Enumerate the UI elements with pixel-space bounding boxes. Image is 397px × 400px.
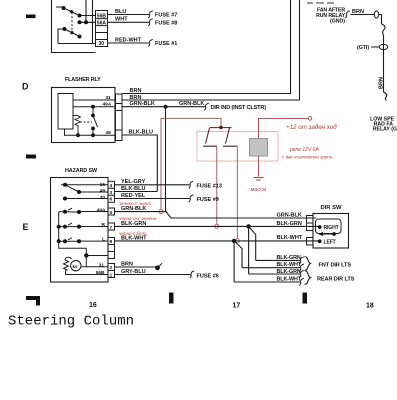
grid dash marker (row D/E boundary) xyxy=(26,155,36,159)
svg-text:RELAY (G: RELAY (G xyxy=(373,127,397,133)
lower squiggle + hook xyxy=(384,92,387,101)
svg-text:(GND): (GND) xyxy=(330,19,345,25)
svg-text:масса: масса xyxy=(251,187,268,193)
junction dot on BLK-WHT xyxy=(232,239,236,243)
svg-text:BLK-WHT: BLK-WHT xyxy=(277,235,303,241)
connector oval (horizontal) xyxy=(379,44,387,49)
red wire coil to +12 terminal xyxy=(259,118,309,138)
svg-text:FLASHER RLY: FLASHER RLY xyxy=(65,77,101,83)
connector pin numbers xyxy=(110,183,113,279)
svg-text:49: 49 xyxy=(100,188,106,194)
svg-text:BLK-GRN: BLK-GRN xyxy=(277,269,301,275)
svg-text:FUSE #7: FUSE #7 xyxy=(155,13,177,19)
svg-text:BLK-BLU: BLK-BLU xyxy=(121,186,145,192)
pink relay outline box xyxy=(197,132,278,162)
red relay switch contacts xyxy=(203,128,237,147)
contact dots of top switch xyxy=(62,6,89,39)
wire RED-WHT to fuse 1 xyxy=(108,42,150,44)
svg-text:BRN: BRN xyxy=(121,262,133,268)
svg-text:BLK-GRN: BLK-GRN xyxy=(121,221,146,227)
svg-text:HAZARD SW: HAZARD SW xyxy=(65,168,98,174)
branch BLK-WHT front xyxy=(234,241,242,268)
LEFT contact xyxy=(318,239,322,243)
left rail xyxy=(59,212,87,256)
wire GRN-BLK to dir sw xyxy=(115,212,317,218)
svg-text:FUSE #9: FUSE #9 xyxy=(197,197,219,203)
dir sw box xyxy=(313,214,349,249)
link line to oval xyxy=(371,46,379,48)
wire BLK-BLU flasher 49 to hazard 49 xyxy=(122,135,157,192)
red wire drop to BLK-WHT tap xyxy=(236,146,238,239)
svg-text:BLU: BLU xyxy=(115,9,126,15)
svg-text:реле 12V 6А: реле 12V 6А xyxy=(289,147,319,153)
relay coil gray square xyxy=(250,139,268,157)
branch BLK-GRN front xyxy=(249,226,256,260)
svg-text:4: 4 xyxy=(110,183,113,189)
RIGHT contact xyxy=(318,225,322,229)
svg-text:49A: 49A xyxy=(97,207,106,213)
svg-text:E: E xyxy=(23,222,29,232)
svg-text:DIR SW: DIR SW xyxy=(321,205,342,211)
main ground wire down xyxy=(383,35,385,92)
svg-text:6: 6 xyxy=(110,197,113,203)
svg-text:BLK-BLU: BLK-BLU xyxy=(129,130,153,136)
svg-text:RED-WHT: RED-WHT xyxy=(115,37,142,43)
svg-text:56B: 56B xyxy=(97,13,107,19)
dashed link coil to contact xyxy=(80,121,92,123)
dashed travel line of top switch xyxy=(71,12,73,34)
svg-text:BRN: BRN xyxy=(379,77,385,89)
pin 49 bottom wire xyxy=(65,129,116,135)
connector oval (vertical) xyxy=(374,11,378,18)
svg-text:BRN: BRN xyxy=(352,9,364,15)
front dir lts brace xyxy=(305,257,311,271)
svg-text:FUSE #6: FUSE #6 xyxy=(197,273,219,279)
wire BLK-BLU joining flasher 49 xyxy=(115,191,158,193)
svg-text:FUSE #8: FUSE #8 xyxy=(155,20,177,26)
svg-text:GRN-BLK: GRN-BLK xyxy=(121,206,146,212)
wire GRN-BLK pin 49A to DIR IND xyxy=(122,106,205,108)
red contact tap circle on BLK-GRN xyxy=(215,224,219,228)
svg-text:BRN: BRN xyxy=(130,88,142,94)
bottom-left corner mark xyxy=(26,296,40,306)
hazard contact dots xyxy=(57,183,89,258)
svg-text:ks: ks xyxy=(73,264,79,269)
wire RED-YEL to fuse 9 xyxy=(115,198,190,200)
red wire coil to ground xyxy=(258,156,260,177)
svg-text:GRN-BLK: GRN-BLK xyxy=(179,101,204,107)
svg-text:FUSE #1: FUSE #1 xyxy=(155,41,177,47)
svg-text:с две контактни групи: с две контактни групи xyxy=(282,155,333,160)
ground point dot xyxy=(155,265,160,270)
red tap circle on 49A wire xyxy=(159,210,163,214)
svg-text:BLK-GRN: BLK-GRN xyxy=(277,255,301,261)
switch arm upper (56B) xyxy=(56,7,96,16)
svg-text:BRN: BRN xyxy=(130,95,142,101)
rail to unlabeled pin xyxy=(86,256,108,267)
wire GRY-BLU to fuse 6 xyxy=(115,274,191,276)
svg-text:56B: 56B xyxy=(96,270,105,276)
svg-text:31: 31 xyxy=(106,95,112,101)
L switch arm xyxy=(59,240,108,242)
switch body inner edge xyxy=(92,0,94,44)
wire BLK-WHT front dir lts xyxy=(242,267,300,269)
wire BRN to ground wire xyxy=(351,15,382,25)
junction dot on GRN-BLK xyxy=(164,105,168,109)
flasher connector strip xyxy=(116,94,123,141)
svg-text:2: 2 xyxy=(110,265,113,271)
wire BRN (upper) to fan-after-run relay xyxy=(122,0,291,94)
svg-text:D: D xyxy=(22,82,29,92)
pin 49A wire xyxy=(73,106,115,108)
hazard switch box xyxy=(51,178,109,283)
svg-text:BLK-WHT: BLK-WHT xyxy=(277,277,302,283)
R switch arm xyxy=(59,226,108,228)
wire bottom rail to pin 30 xyxy=(58,29,96,44)
connector strip 56B/56A/30 xyxy=(96,11,108,47)
branch BLK-GRN rear xyxy=(248,226,250,274)
rear dir lts brace xyxy=(305,271,311,285)
svg-text:15: 15 xyxy=(100,182,106,188)
wire drop GRN-BLK to hazard 49A xyxy=(165,107,167,212)
svg-text:GRY-BLU: GRY-BLU xyxy=(121,269,146,275)
wire WHT to fuse 8 xyxy=(108,21,150,23)
flasher heater zigzag xyxy=(73,116,81,136)
grid dash marker (row C/D boundary) xyxy=(26,15,36,19)
flasher relay box xyxy=(52,88,116,143)
svg-text:GRN-BLK: GRN-BLK xyxy=(277,213,302,219)
wire BRN pin 31 xyxy=(122,0,300,100)
wire BLK-GRN rear dir lts xyxy=(249,273,300,275)
red ground symbol xyxy=(254,178,264,181)
svg-text:BLK-GRN: BLK-GRN xyxy=(277,221,302,227)
svg-text:(GTI): (GTI) xyxy=(357,45,369,51)
flasher contact chain xyxy=(93,107,98,136)
svg-text:BLK-WHT: BLK-WHT xyxy=(277,262,302,268)
svg-text:16: 16 xyxy=(89,302,97,309)
49A switch arm xyxy=(59,211,108,214)
svg-text:BLK-WHT: BLK-WHT xyxy=(121,235,147,241)
contact 15 with arm to 49 xyxy=(61,185,108,192)
wire BLK-WHT rear dir lts xyxy=(234,281,300,283)
switch arm arrows xyxy=(68,208,72,240)
svg-text:FUSE #13: FUSE #13 xyxy=(197,183,222,189)
wire BLK-GRN to dir sw RIGHT xyxy=(115,225,320,227)
svg-text:RIGHT: RIGHT xyxy=(324,225,339,231)
wire BLU to fuse 7 xyxy=(108,14,150,16)
contact 30 xyxy=(65,198,108,200)
red feed wire from GRN-BLK 49A xyxy=(161,118,221,209)
wire BRN to ground point xyxy=(115,266,158,268)
svg-text:30: 30 xyxy=(99,41,105,47)
wire BLK-WHT to dir sw LEFT xyxy=(115,240,320,242)
svg-text:черна със зелено: черна със зелено xyxy=(119,216,157,221)
svg-text:YEL-GRY: YEL-GRY xyxy=(121,179,146,185)
hazard indicator lamp xyxy=(71,261,81,271)
svg-text:31: 31 xyxy=(99,263,105,269)
hazard connector strip cells xyxy=(108,181,115,277)
svg-text:RED-YEL: RED-YEL xyxy=(121,193,146,199)
red wire drop to BLK-GRN tap xyxy=(216,146,218,224)
junction dot on BLK-GRN xyxy=(246,224,250,228)
switch body outer box xyxy=(52,0,96,53)
svg-text:L: L xyxy=(102,237,105,243)
grid tick xyxy=(169,293,174,304)
svg-text:Steering Column: Steering Column xyxy=(8,314,134,330)
switch arm lower (30) xyxy=(65,29,80,37)
dir sw wiper contour xyxy=(316,219,342,234)
zigzag resistor + wire to 56B xyxy=(64,257,109,274)
svg-text:18: 18 xyxy=(366,303,374,310)
svg-text:5: 5 xyxy=(110,210,113,216)
svg-text:R: R xyxy=(102,222,106,228)
lamp wire to pin 31 xyxy=(81,266,108,268)
wire break squiggle xyxy=(382,24,386,35)
switch contact pair 56A xyxy=(80,0,96,22)
svg-text:FNT DIR LTS: FNT DIR LTS xyxy=(319,263,352,269)
svg-text:56A: 56A xyxy=(97,21,107,27)
grid tick xyxy=(303,293,308,304)
wire YEL-GRY to fuse 13 xyxy=(115,184,190,186)
svg-text:49: 49 xyxy=(106,130,112,136)
svg-text:30: 30 xyxy=(100,195,106,201)
svg-text:LEFT: LEFT xyxy=(324,239,336,245)
svg-text:8: 8 xyxy=(110,239,113,245)
hazard internals xyxy=(59,185,108,275)
svg-text:+12 от заден ход: +12 от заден ход xyxy=(286,124,337,131)
svg-text:GRN-BLK: GRN-BLK xyxy=(130,101,155,107)
svg-text:REAR DIR LTS: REAR DIR LTS xyxy=(317,277,355,283)
svg-text:49A: 49A xyxy=(103,101,112,107)
dir sw connector cells xyxy=(307,216,314,246)
flasher coil unit box xyxy=(58,94,73,130)
svg-text:черна с бяло: черна с бяло xyxy=(119,231,147,236)
wiper arrow xyxy=(332,232,336,236)
svg-text:WHT: WHT xyxy=(115,17,128,23)
svg-text:DIR IND (INST CLSTR): DIR IND (INST CLSTR) xyxy=(211,105,267,111)
svg-text:7: 7 xyxy=(110,225,113,231)
svg-text:зелено с черно: зелено с черно xyxy=(118,201,152,206)
svg-text:3: 3 xyxy=(110,190,113,196)
svg-text:1: 1 xyxy=(110,273,113,279)
wire BLK-GRN front dir lts xyxy=(256,259,300,261)
branch BLK-WHT rear xyxy=(233,241,235,282)
red contact tap circle on BLK-WHT xyxy=(235,239,239,243)
pin 31 wire xyxy=(73,99,115,101)
svg-text:17: 17 xyxy=(233,303,241,310)
cut-off text scraps xyxy=(307,2,334,4)
